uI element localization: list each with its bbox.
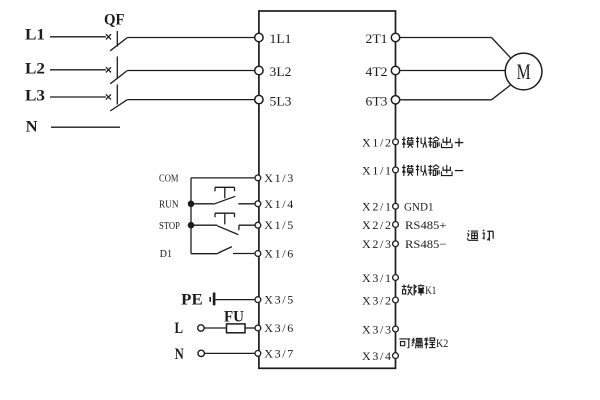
control bus vertical wire (190, 178, 192, 254)
svg-text:N: N (175, 346, 184, 363)
svg-text:QF: QF (104, 12, 125, 29)
svg-text:X1/6: X1/6 (264, 247, 293, 261)
svg-text:L1: L1 (25, 26, 45, 43)
svg-text:D1: D1 (160, 249, 173, 260)
wire D1 left segment (191, 253, 218, 255)
breaker QF pole 3 blade (110, 100, 127, 111)
terminal X1/3 (255, 171, 293, 185)
terminal X1/5 (255, 218, 293, 232)
breaker QF pole 2 blade (110, 71, 127, 84)
svg-text:3L2: 3L2 (270, 64, 292, 79)
svg-text:RS485−: RS485− (405, 237, 447, 251)
svg-text:K2: K2 (436, 338, 449, 350)
switch STOP fixed contact tick (238, 225, 240, 230)
wire RUN left segment (191, 203, 214, 205)
wire L to fuse (204, 327, 226, 329)
breaker QF linkage dashes (116, 31, 118, 105)
junction node RUN (188, 201, 195, 208)
svg-text:RUN: RUN (159, 200, 179, 211)
wire 6T3 to motor (400, 85, 511, 100)
breaker QF pole 3 contact cross (106, 94, 111, 99)
svg-text:X1/5: X1/5 (264, 218, 293, 232)
svg-text:X2/3: X2/3 (362, 237, 391, 251)
svg-text:X2/2: X2/2 (362, 218, 391, 232)
svg-text:FU: FU (224, 308, 244, 325)
terminal X3/6 (255, 321, 293, 335)
wire N input (51, 126, 120, 128)
svg-text:L: L (175, 320, 184, 337)
svg-text:X3/5: X3/5 (264, 293, 293, 307)
svg-text:X3/4: X3/4 (362, 349, 391, 363)
terminal 1L1 (255, 31, 292, 46)
terminal X2/3 (362, 237, 398, 251)
terminal X3/2 (362, 293, 398, 307)
label fault relay K1 (402, 284, 437, 297)
wire N to terminal X3/7 (204, 352, 255, 354)
label analog output + (402, 137, 463, 149)
svg-text:GND1: GND1 (404, 202, 434, 214)
wire 4T2 to motor (400, 70, 506, 72)
terminal X3/7 (255, 346, 293, 360)
terminal X3/3 (362, 322, 398, 336)
terminal node L (198, 325, 204, 331)
wire PE to terminal X3/5 (214, 299, 255, 301)
svg-text:X1/3: X1/3 (264, 171, 293, 185)
terminal X1/4 (255, 197, 293, 211)
wire L2 input (50, 69, 106, 71)
terminal X1/1 (362, 163, 398, 177)
svg-text:X1/2: X1/2 (362, 135, 391, 149)
svg-text:1L1: 1L1 (270, 31, 292, 46)
svg-text:K1: K1 (425, 285, 436, 297)
terminal X3/4 (362, 349, 398, 363)
wire L1 input (50, 36, 106, 38)
svg-text:PE: PE (181, 292, 203, 309)
terminal X1/6 (255, 247, 293, 261)
terminal X1/2 (362, 135, 398, 149)
breaker QF pole 2 contact cross (106, 67, 111, 72)
svg-text:X1/4: X1/4 (264, 197, 293, 211)
svg-text:4T2: 4T2 (366, 64, 388, 79)
switch RUN actuator (215, 187, 235, 198)
fuse FU (227, 324, 246, 333)
wire COM to terminal X1/3 (191, 177, 255, 179)
wire 2T1 to motor (400, 38, 511, 59)
terminal 6T3 (366, 94, 400, 109)
terminal X2/2 (362, 218, 398, 232)
label analog output - (402, 165, 463, 177)
terminal 5L3 (255, 93, 292, 108)
svg-text:COM: COM (159, 174, 179, 185)
svg-text:X3/1: X3/1 (362, 271, 391, 285)
drive unit box U1 (259, 11, 396, 368)
svg-text:X2/1: X2/1 (362, 200, 391, 214)
switch D1 blade (218, 247, 232, 254)
switch RUN blade (214, 196, 236, 204)
motor M (505, 53, 542, 90)
svg-text:L3: L3 (25, 87, 45, 104)
wire RUN right segment (238, 203, 255, 205)
terminal 2T1 (366, 31, 400, 46)
wire D1 right segment (233, 253, 255, 255)
PE contact bars (210, 293, 214, 306)
svg-text:X3/2: X3/2 (362, 293, 391, 307)
wire L2 to terminal 3L2 (127, 70, 255, 72)
svg-text:X1/1: X1/1 (362, 163, 391, 177)
terminal 4T2 (366, 64, 400, 79)
svg-text:M: M (517, 59, 531, 84)
svg-text:X3/3: X3/3 (362, 322, 391, 336)
svg-text:5L3: 5L3 (270, 93, 292, 108)
terminal X2/1 (362, 200, 398, 214)
label programmable relay K2 (399, 338, 448, 350)
wire STOP right segment (239, 224, 255, 226)
breaker QF pole 1 blade (110, 38, 127, 51)
wire L3 input (50, 96, 106, 98)
wire STOP left segment (191, 224, 217, 226)
junction node STOP (188, 222, 195, 229)
terminal 3L2 (255, 64, 292, 79)
svg-text:RS485+: RS485+ (405, 218, 447, 232)
wire L1 to terminal 1L1 (127, 37, 255, 39)
svg-text:X3/6: X3/6 (264, 321, 293, 335)
svg-text:6T3: 6T3 (366, 94, 388, 109)
svg-text:L2: L2 (25, 61, 45, 78)
breaker QF pole 1 contact cross (106, 34, 111, 39)
wire fuse to terminal X3/6 (245, 327, 255, 329)
terminal X3/5 (255, 293, 293, 307)
svg-text:STOP: STOP (159, 221, 180, 232)
terminal X3/1 (362, 271, 398, 285)
switch STOP actuator (215, 213, 235, 224)
wire L3 to terminal 5L3 (127, 99, 255, 101)
svg-text:X3/7: X3/7 (264, 346, 293, 360)
switch STOP blade (217, 226, 238, 235)
label communication (467, 230, 493, 241)
svg-text:N: N (26, 119, 38, 136)
svg-text:2T1: 2T1 (366, 31, 388, 46)
terminal node N (198, 350, 204, 356)
